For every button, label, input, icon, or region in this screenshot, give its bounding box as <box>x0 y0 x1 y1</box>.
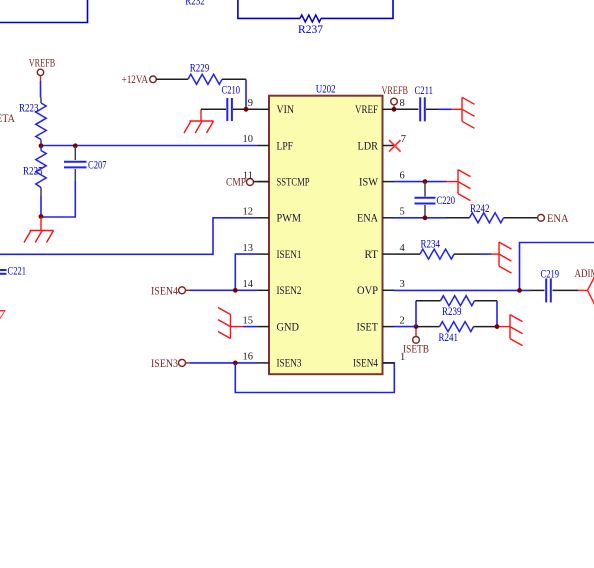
svg-text:10: 10 <box>243 134 254 145</box>
svg-text:OVP: OVP <box>357 285 378 297</box>
svg-text:ISEN3: ISEN3 <box>277 358 302 370</box>
svg-text:11: 11 <box>243 170 253 181</box>
pin 15 GND <box>243 315 300 333</box>
pin 16 ISEN3 <box>243 352 302 370</box>
svg-text:7: 7 <box>0 306 6 326</box>
svg-text:VREF: VREF <box>355 104 378 116</box>
svg-text:C219: C219 <box>541 268 560 280</box>
pin 11 SSTCMP <box>243 170 310 188</box>
wire vertical down to VIN <box>245 79 247 109</box>
svg-text:ETA: ETA <box>0 113 16 125</box>
svg-text:LDR: LDR <box>358 140 379 152</box>
svg-text:ENA: ENA <box>547 213 569 225</box>
resistor R242 <box>470 203 504 223</box>
wire ISEN4 to ISEN2 pin <box>186 289 191 291</box>
node junction R223/R225 <box>39 143 44 148</box>
pin 12 PWM <box>243 207 302 225</box>
svg-text:9: 9 <box>248 98 253 109</box>
svg-text:ENA: ENA <box>357 213 379 225</box>
wire R234 to ground <box>454 253 480 255</box>
wire CMP to SSTCMP pin <box>254 181 270 183</box>
wire ISEN3 to ISEN3 pin <box>186 362 191 364</box>
capacitor C210 <box>222 85 241 122</box>
pin 8 VREF <box>355 98 405 116</box>
wire R242 to ENA terminal <box>504 217 538 219</box>
wire R237 loop left vertical <box>238 0 300 18</box>
svg-text:ISETB: ISETB <box>403 344 429 356</box>
svg-text:C220: C220 <box>437 195 456 207</box>
wire C207 bottom <box>41 180 75 217</box>
svg-text:ISEN4: ISEN4 <box>151 285 178 297</box>
node junction C220 top <box>423 179 428 184</box>
pin 13 ISEN1 <box>243 243 302 261</box>
resistor R239 <box>441 296 475 319</box>
pin 10 LPF <box>243 134 294 152</box>
wire to R242 <box>447 217 470 219</box>
ground below R225 <box>24 217 54 243</box>
svg-text:LPF: LPF <box>277 140 294 152</box>
pin 6 ISW <box>359 170 405 188</box>
wire ground to C210 <box>201 108 226 110</box>
wire bottom loop to ISEN4 pin 1 <box>235 363 394 393</box>
svg-text:6: 6 <box>400 170 405 181</box>
wire OVP branch to right edge <box>520 243 594 291</box>
node junction pin 8 <box>392 107 397 112</box>
pin 2 ISET <box>357 315 405 333</box>
svg-text:R225: R225 <box>23 166 43 178</box>
svg-text:ISEN2: ISEN2 <box>277 285 302 297</box>
wire ground to GND pin <box>243 326 258 328</box>
wire pin 3 OVP <box>394 289 531 291</box>
node junction ISET right <box>495 324 500 329</box>
svg-text:12: 12 <box>243 207 254 218</box>
svg-text:13: 13 <box>243 243 254 254</box>
resistor R223 <box>19 98 46 146</box>
pin 7 LDR <box>358 134 407 152</box>
wire pin 4 to R234 <box>394 253 420 255</box>
pin 1 ISEN4 <box>353 352 405 370</box>
wire lower branch to R241 <box>416 326 440 328</box>
wire +12VA to R229 <box>156 78 188 80</box>
svg-text:ISEN4: ISEN4 <box>353 358 378 370</box>
wire R229 to pin 9 <box>222 78 246 80</box>
svg-text:R242: R242 <box>470 203 490 215</box>
svg-text:ISW: ISW <box>359 176 378 188</box>
ground right of R234 <box>492 242 512 273</box>
wire C211 to ground <box>426 108 438 110</box>
svg-text:3: 3 <box>400 279 405 290</box>
resistor R234 <box>420 239 454 260</box>
svg-text:ADIM: ADIM <box>575 268 594 280</box>
svg-text:C211: C211 <box>415 85 434 97</box>
svg-text:R234: R234 <box>421 239 441 251</box>
capacitor C211 <box>415 85 434 122</box>
ground left of C210 <box>184 109 214 133</box>
capacitor C219 <box>541 268 560 302</box>
svg-text:U202: U202 <box>316 84 336 96</box>
svg-text:R229: R229 <box>190 63 210 75</box>
svg-text:C207: C207 <box>88 160 107 172</box>
capacitor C221 (cut off at left edge) <box>0 266 26 278</box>
svg-text:ISEN3: ISEN3 <box>151 358 178 370</box>
pin 4 RT <box>365 243 406 261</box>
node VREFB terminal (right) <box>382 85 409 107</box>
node junction R225/C207 bottom <box>39 214 44 219</box>
node ISEN3 terminal <box>151 358 186 370</box>
capacitor C207 <box>64 146 107 181</box>
wire upper branch left vertical <box>415 301 417 327</box>
wire LPF net horizontal <box>41 145 258 147</box>
svg-text:4: 4 <box>400 243 406 254</box>
svg-text:2: 2 <box>400 315 405 326</box>
resistor R225 <box>23 146 46 197</box>
svg-text:R237: R237 <box>298 24 323 36</box>
svg-text:R241: R241 <box>439 332 459 344</box>
resistor R241 <box>439 322 474 345</box>
resistor R237 <box>298 15 323 36</box>
wire R241 to junction <box>474 326 498 328</box>
ground right of C211 <box>452 97 475 128</box>
svg-text:15: 15 <box>243 315 254 326</box>
svg-text:C221: C221 <box>8 266 27 278</box>
node junction C220 bottom <box>423 215 428 220</box>
wire R237 loop right vertical <box>321 0 393 18</box>
op-amp U202 body <box>269 84 383 375</box>
svg-text:VIN: VIN <box>277 104 295 116</box>
svg-text:7: 7 <box>401 134 406 145</box>
wire pin 8 to C211 <box>394 108 419 110</box>
wire branch up to ISEN1 <box>235 254 257 290</box>
node +12VA terminal <box>122 74 157 86</box>
node junction ISEN1/ISEN2 <box>233 288 238 293</box>
capacitor C220 <box>415 182 456 218</box>
node junction pin 9 <box>244 107 249 112</box>
svg-text:R239: R239 <box>442 306 462 318</box>
node junction C207 top <box>73 143 78 148</box>
node junction OVP <box>517 288 522 293</box>
pin 9 VIN <box>248 98 295 116</box>
pin 3 OVP <box>357 279 405 297</box>
svg-text:PWM: PWM <box>277 213 302 225</box>
wire OVP to C219 <box>531 289 545 291</box>
wire pin 6 ISW <box>394 181 447 183</box>
svg-text:+12VA: +12VA <box>122 74 149 86</box>
svg-text:16: 16 <box>243 352 254 363</box>
svg-text:VREFB: VREFB <box>29 58 56 70</box>
pin 5 ENA <box>357 207 405 225</box>
ground at GND pin 15 <box>218 308 243 339</box>
svg-text:GND: GND <box>277 321 300 333</box>
ground right of ISW <box>447 170 471 201</box>
svg-text:ISEN1: ISEN1 <box>277 249 302 261</box>
wire C210 to VIN pin <box>233 108 258 110</box>
wire R225 bottom <box>40 196 42 217</box>
svg-text:5: 5 <box>400 207 405 218</box>
node ISETB terminal <box>403 329 429 356</box>
wire top-left box corner <box>0 0 88 23</box>
svg-text:14: 14 <box>243 279 254 290</box>
node junction ISET left <box>414 324 419 329</box>
wire C219 to ADIM <box>553 289 579 291</box>
svg-text:ISET: ISET <box>357 321 379 333</box>
wire VREFB to R223 <box>40 81 42 98</box>
pin 14 ISEN2 <box>243 279 302 297</box>
svg-text:C210: C210 <box>222 85 241 97</box>
node CMP terminal <box>226 177 254 189</box>
svg-text:RT: RT <box>365 249 379 261</box>
svg-text:R232: R232 <box>185 0 205 8</box>
node VREFB terminal (left) <box>29 58 56 82</box>
wire pin 5 ENA <box>394 217 447 219</box>
wire upper branch right vertical <box>475 300 498 302</box>
svg-text:R223: R223 <box>19 103 39 115</box>
node ISEN4 terminal <box>151 285 186 297</box>
svg-text:8: 8 <box>400 98 405 109</box>
svg-text:SSTCMP: SSTCMP <box>277 176 310 188</box>
node ENA terminal <box>538 213 570 225</box>
wire pin 2 ISET <box>394 326 416 328</box>
svg-text:VREFB: VREFB <box>382 85 409 97</box>
off-page connector ADIM (cut off at right edge) <box>575 268 594 308</box>
ground right of R241 <box>500 315 523 346</box>
node junction ISEN3 <box>233 361 238 366</box>
no-connect X on pin 7 <box>389 140 401 152</box>
wire PWM net long horizontal <box>0 218 258 255</box>
resistor R229 <box>188 63 222 85</box>
